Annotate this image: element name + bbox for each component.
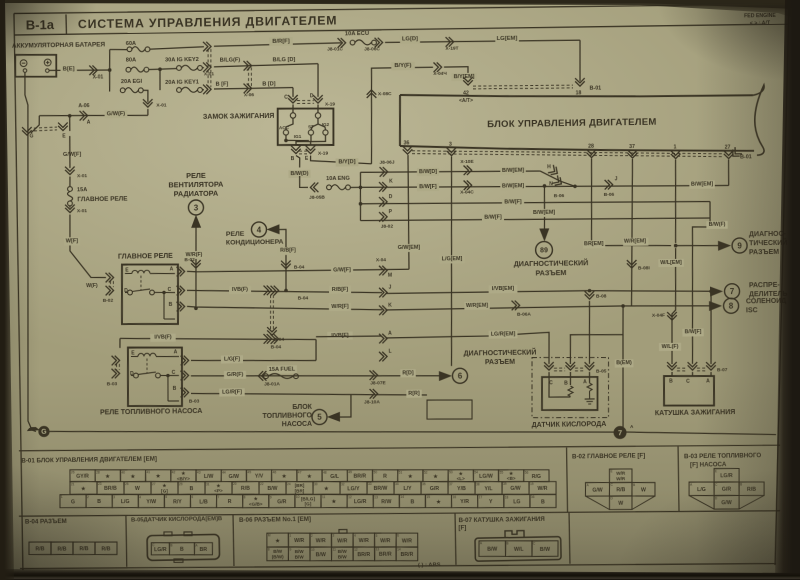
connector X-19T (446, 37, 454, 47)
connector H (548, 165, 560, 177)
svg-text:W/R: W/R (537, 486, 547, 492)
B-07 top lock tab (505, 531, 524, 538)
fuse 10A ENG (327, 185, 332, 190)
label W/R[F] fan (183, 251, 204, 259)
title bar bottom line (14, 24, 789, 36)
connector X-04 M (379, 266, 387, 276)
wire lock IG1 bar (286, 139, 309, 142)
arrow to diag89 (539, 228, 549, 241)
connector B-01 pin18 (575, 78, 585, 86)
wire sensor C in (548, 372, 550, 381)
label B/W[F] row219 (482, 214, 504, 222)
arrow to fan relay (191, 215, 201, 228)
ignition lock box (277, 108, 334, 146)
B-02 wing left (585, 496, 609, 510)
svg-text:B-01: B-01 (740, 154, 752, 160)
svg-text:Y/V: Y/V (255, 474, 264, 480)
wire battery ground (23, 72, 36, 431)
svg-text:W/R[F]: W/R[F] (331, 304, 349, 310)
label B/W[F] row204 (502, 198, 524, 206)
B-01 cell r3c1 (60, 494, 86, 508)
connector B-07 dashes1 (677, 370, 687, 372)
junction HN (573, 184, 577, 188)
lock contact IG2 (323, 130, 328, 135)
connector D J8-02 (379, 197, 387, 207)
svg-text:D: D (310, 93, 314, 99)
label L/G[EM] (439, 255, 465, 263)
svg-text:C: C (533, 541, 536, 545)
B-04 cell 2 (51, 542, 73, 555)
connector X-04 A (379, 334, 387, 344)
label W[F] (64, 237, 80, 245)
svg-text:BR: BR (200, 547, 208, 553)
connector B-06A (512, 301, 520, 311)
connector B-04 rb1 (264, 286, 272, 296)
svg-text:5: 5 (317, 413, 322, 422)
connector below ECU pin 28 (587, 149, 597, 157)
svg-text:B/W: B/W (540, 547, 550, 553)
wire H diag (540, 170, 575, 186)
svg-text:6: 6 (397, 534, 399, 538)
B-05 connector outline (147, 534, 220, 560)
fuse 60A (127, 47, 132, 52)
label B/W(F) corner (706, 221, 727, 229)
svg-text:E: E (610, 470, 612, 474)
svg-text:7: 7 (730, 287, 735, 296)
battery plus terminal (44, 59, 51, 66)
svg-text:[F] НАСОСА: [F] НАСОСА (690, 461, 727, 469)
svg-text:31: 31 (206, 482, 210, 486)
svg-text:L/Y: L/Y (403, 486, 412, 492)
svg-text:LG/R: LG/R (154, 547, 167, 553)
svg-text:B/W[F]: B/W[F] (504, 199, 522, 205)
connector J8-06C (375, 38, 383, 48)
svg-text:L/G: L/G (121, 499, 130, 505)
svg-text:J8-01A: J8-01A (264, 381, 280, 387)
connector X-01 gw2 (65, 205, 75, 213)
svg-text:B/W: B/W (338, 554, 348, 559)
svg-text:15A FUEL: 15A FUEL (269, 366, 296, 372)
svg-text:A: A (388, 331, 392, 337)
svg-text:X-01: X-01 (156, 102, 167, 108)
connector below ECU pin 3 (447, 148, 457, 156)
connector B-05 A (585, 362, 595, 370)
divider B-07/blank (568, 513, 571, 564)
fuel pump relay contact link (146, 358, 148, 373)
B-06 cell r1c3 (310, 533, 332, 548)
wire sensor A feed (589, 301, 591, 364)
svg-text:(B/W): (B/W) (272, 554, 285, 559)
svg-text:J8-07E: J8-07E (370, 380, 386, 386)
ECU box left edge (399, 95, 401, 146)
label B/W[EM] row1 (500, 167, 526, 175)
svg-text:47: 47 (298, 470, 302, 474)
wire B/Y[F] (371, 67, 433, 96)
svg-text:Y/B: Y/B (457, 486, 466, 492)
label B/W[EM] row2 (500, 182, 526, 190)
svg-text:14: 14 (397, 548, 401, 552)
svg-text:РЕЛЕ: РЕЛЕ (186, 171, 206, 180)
label I/VB(F) (150, 334, 176, 342)
svg-text:B: B (411, 499, 415, 505)
label B/W[EM] right (689, 181, 715, 189)
svg-text:A: A (583, 379, 587, 385)
svg-text:G/W: G/W (229, 474, 240, 480)
svg-text:G/W: G/W (592, 487, 603, 493)
svg-text:LG/R: LG/R (354, 499, 367, 505)
B-01 cell r3c10 (295, 494, 321, 508)
label B/Y[F] (391, 62, 415, 71)
svg-text:ТОПЛИВНОГО: ТОПЛИВНОГО (263, 413, 313, 421)
svg-text:44: 44 (222, 470, 226, 474)
svg-text:48: 48 (323, 470, 327, 474)
B-01 cell r1c17 (473, 469, 499, 482)
svg-text:★: ★ (332, 499, 337, 505)
svg-text:W: W (618, 501, 623, 507)
wire lock E to B/Y[D] (310, 155, 371, 165)
svg-text:X-10E: X-10E (460, 159, 474, 165)
connector B-03 left dashes (115, 364, 117, 370)
wire B[EM] to ground (620, 335, 625, 432)
wire key2 out (202, 67, 204, 69)
svg-text:G/W[F]: G/W[F] (63, 152, 82, 158)
connector X-04 J (379, 288, 387, 298)
title box divider (65, 14, 68, 34)
B-01 cell r3c15 (425, 494, 451, 508)
connector X-01 row2 (203, 62, 211, 72)
connector B-05 B (565, 362, 575, 370)
wire B/LG (214, 64, 318, 67)
svg-text:A: A (174, 350, 178, 356)
svg-text:1: 1 (61, 495, 63, 499)
label B[E] (60, 65, 77, 74)
svg-text:K: K (389, 178, 393, 184)
svg-text:G/W: G/W (510, 486, 521, 492)
B-07 cell B/W 2 (532, 540, 559, 556)
wire G/W to main relay (69, 116, 71, 131)
battery B box (15, 54, 57, 77)
svg-text:C: C (610, 483, 613, 487)
arrow to diag9 (718, 241, 731, 251)
svg-text:28: 28 (588, 144, 594, 150)
svg-text:W/R[EM]: W/R[EM] (624, 239, 646, 245)
B-01 cell r3c11 (321, 494, 347, 508)
svg-text:ГЛАВНОЕ РЕЛЕ: ГЛАВНОЕ РЕЛЕ (118, 253, 173, 261)
connector N (552, 175, 564, 187)
svg-text:LG/Y: LG/Y (347, 486, 360, 492)
connector X-01 dashes (208, 49, 209, 87)
arrow to ISC (709, 301, 722, 311)
fuel pump relay contacts (134, 373, 139, 378)
label W/R[EM] pin37 (623, 238, 649, 246)
B-02 cell D (609, 496, 632, 510)
svg-text:B[E]: B[E] (63, 67, 75, 73)
svg-text:Y/W: Y/W (146, 499, 156, 505)
svg-text:B(EM): B(EM) (616, 360, 632, 366)
svg-text:B-04: B-04 (271, 344, 282, 350)
svg-text:L: L (388, 349, 391, 355)
svg-text:R/B: R/B (616, 487, 625, 493)
svg-text:15: 15 (426, 495, 430, 499)
connector B-02 left dashes (109, 281, 111, 287)
connector X-01 EGI (143, 99, 153, 107)
wire I/VB right (316, 336, 382, 337)
svg-text:B/W[D]: B/W[D] (419, 169, 437, 175)
sensor element zigzag (587, 383, 592, 391)
svg-text:G: G (41, 429, 47, 436)
svg-text:B-03 РЕЛЕ ТОПЛИВНОГО: B-03 РЕЛЕ ТОПЛИВНОГО (684, 452, 762, 460)
B-01 cell r2c6 (205, 481, 232, 494)
label IVB(F) row (229, 286, 251, 294)
svg-text:1: 1 (674, 145, 677, 151)
circled 8 ISC (723, 298, 738, 313)
B-01 cell r3c17 (478, 494, 504, 508)
label B/W[D] row (417, 168, 439, 176)
main relay contact link (140, 276, 142, 291)
svg-text:8: 8 (244, 495, 246, 499)
svg-text:R: R (228, 499, 232, 505)
svg-text:B: B (169, 302, 173, 308)
svg-text:37: 37 (629, 144, 635, 150)
wire I/VB row (120, 336, 316, 343)
divider B-05/B-06 (232, 515, 235, 566)
wire AC relay feed (277, 229, 286, 290)
label R[D] (400, 369, 416, 377)
svg-text:G/W: G/W (721, 500, 732, 506)
svg-text:35: 35 (422, 482, 426, 486)
label LG/R[EM] (489, 330, 518, 338)
wire W/R[F] fan (195, 226, 198, 309)
connector B-05 C (544, 362, 554, 370)
svg-text:I/VB[F]: I/VB[F] (331, 333, 349, 339)
label R/B[F] ac (277, 247, 298, 255)
wire G/R row (191, 372, 441, 379)
svg-text:9: 9 (289, 548, 291, 552)
svg-text:BR/R: BR/R (353, 474, 366, 480)
svg-text:53: 53 (449, 470, 453, 474)
connector B-03 right A (181, 356, 189, 366)
svg-text:X-06: X-06 (244, 92, 255, 98)
wire coil A drop (710, 291, 712, 364)
wire pin27 drop (727, 160, 730, 186)
tables top border (19, 439, 780, 456)
svg-text:29: 29 (179, 482, 183, 486)
svg-text:ДИАГНОСТИЧЕСКИЙ: ДИАГНОСТИЧЕСКИЙ (464, 347, 537, 357)
svg-text:J8-06J: J8-06J (379, 159, 394, 165)
wire ENG fuse out (350, 186, 360, 188)
svg-text:G/R(F): G/R(F) (227, 372, 244, 378)
svg-text:BR/B: BR/B (104, 486, 117, 492)
svg-text:B-03: B-03 (107, 381, 118, 387)
wire BW corner (709, 201, 711, 218)
B-06 cell r1c2 (288, 533, 310, 548)
wire L/G[EM] riser (448, 157, 454, 367)
svg-text:B/LG [D]: B/LG [D] (273, 57, 296, 63)
svg-text:B: B (564, 381, 568, 387)
svg-text:27: 27 (725, 145, 731, 151)
svg-text:A: A (195, 543, 198, 547)
svg-text:R/B[F]: R/B[F] (332, 287, 348, 293)
wire W/L pin1 riser (674, 159, 676, 243)
lock contact ST (308, 130, 313, 135)
wire lock D to IG2 (318, 124, 325, 130)
svg-text:B: B (173, 386, 177, 392)
connector X-19 pin B out (291, 146, 301, 154)
circled 3 fan relay (188, 200, 203, 215)
B-01 cell r2c7 (232, 481, 259, 494)
ground node 7 (613, 426, 626, 439)
svg-text:30: 30 (314, 482, 318, 486)
B-01 cell r2c12 (367, 481, 394, 494)
svg-text:B: B (170, 543, 172, 547)
connector X-06 dashes (247, 68, 250, 87)
main relay contacts (128, 290, 133, 295)
svg-text:B: B (506, 541, 508, 545)
svg-text:21: 21 (71, 482, 75, 486)
svg-text:B/Y(F): B/Y(F) (394, 63, 411, 69)
svg-text:D: D (389, 194, 393, 200)
B-02 wing right (632, 496, 655, 509)
svg-text:[F]: [F] (458, 524, 466, 531)
lock terminal D circle (315, 113, 320, 118)
svg-text:19: 19 (530, 482, 534, 486)
svg-text:W/L(F): W/L(F) (662, 344, 679, 350)
svg-text:L/B: L/B (199, 499, 208, 505)
B-07 cell W/L (505, 540, 532, 556)
B-01 cell r1c19 (524, 469, 550, 482)
svg-text:LG: LG (513, 499, 520, 505)
connector A-06 pin G (22, 127, 32, 135)
svg-text:14: 14 (400, 495, 404, 499)
svg-text:6: 6 (191, 495, 193, 499)
connector X-06 row3 (244, 83, 252, 93)
B-01 cell r1c7 (221, 469, 247, 482)
svg-text:X-04C: X-04C (460, 189, 474, 195)
AT dashed pair to pin 18 (473, 87, 573, 89)
svg-text:R[R]: R[R] (408, 391, 420, 397)
dark top edge strip (0, 0, 800, 22)
main relay coil (132, 270, 150, 273)
svg-text:25: 25 (125, 482, 129, 486)
svg-text:X-01: X-01 (77, 173, 88, 179)
label LG/R[F] (219, 388, 245, 396)
svg-text:L/W: L/W (204, 474, 214, 480)
B-01 cell r1c1 (70, 469, 95, 482)
B-01 cell r3c16 (451, 494, 477, 508)
wire B/Y[EM] (444, 67, 468, 80)
wire 60A to ECU fuse row (150, 47, 204, 49)
label W/R[F] row (329, 303, 351, 311)
svg-text:РЕЛЕ ТОПЛИВНОГО НАСОСА: РЕЛЕ ТОПЛИВНОГО НАСОСА (100, 408, 202, 417)
svg-text:< > : A/T: < > : A/T (750, 20, 771, 26)
svg-text:G/R: G/R (722, 487, 732, 493)
svg-text:РАЗЪЕМ: РАЗЪЕМ (535, 268, 566, 277)
B-06 cell r2c2 (288, 547, 310, 561)
B-01 cell r2c9 (286, 481, 313, 494)
wire W[F] down (69, 214, 106, 278)
svg-text:B: B (633, 483, 635, 487)
frame top line (14, 2, 789, 15)
label 15A FUEL (267, 365, 297, 374)
svg-text:B/W[EM]: B/W[EM] (691, 182, 713, 188)
wire J8-02 vertical (360, 172, 361, 220)
wire L/G row (191, 359, 316, 363)
connector X-01 row3 (203, 84, 211, 94)
divider B-01/B-02 (566, 448, 569, 513)
svg-text:B: B (740, 483, 742, 487)
svg-text:[G]: [G] (305, 501, 312, 506)
svg-text:W: W (641, 487, 646, 493)
svg-text:БЛОК УПРАВЛЕНИЯ ДВИГАТЕЛЕМ: БЛОК УПРАВЛЕНИЯ ДВИГАТЕЛЕМ (487, 117, 657, 131)
svg-text:7: 7 (218, 495, 220, 499)
svg-text:R/B: R/B (101, 546, 110, 552)
svg-text:J8-02: J8-02 (381, 223, 394, 229)
svg-text:ISC: ISC (746, 307, 758, 314)
fuse 15A FUEL (264, 374, 269, 379)
svg-text:B-08: B-08 (596, 293, 607, 299)
B-05 tab2 (184, 532, 192, 536)
svg-text:<P>: <P> (214, 488, 223, 493)
dashed RB alt (270, 295, 271, 330)
svg-text:Y/R: Y/R (460, 499, 469, 505)
svg-text:R[D]: R[D] (402, 370, 414, 376)
svg-text:W: W (135, 486, 140, 492)
connector X-19 top dashes (297, 102, 314, 104)
B-01 cell r3c18 (504, 494, 530, 508)
svg-text:G/R: G/R (430, 486, 440, 492)
svg-text:Y/L: Y/L (484, 486, 493, 492)
wire 80A out (149, 69, 177, 70)
wire row B/W[F] 204 (361, 199, 711, 207)
svg-text:38: 38 (476, 482, 480, 486)
B-03 wing left (689, 495, 714, 509)
svg-text:I/VB(F): I/VB(F) (154, 335, 172, 341)
svg-text:B: B (669, 378, 673, 384)
svg-text:IG1: IG1 (294, 134, 302, 139)
connector X-01 gw (65, 167, 75, 175)
svg-text:B-02 ГЛАВНОЕ РЕЛЕ [F]: B-02 ГЛАВНОЕ РЕЛЕ [F] (572, 452, 645, 460)
connector B-08A (585, 291, 595, 299)
junction G/W column (68, 114, 72, 118)
B-01 cell r1c8 (246, 469, 272, 482)
connector X-19 pin E out (306, 146, 316, 154)
B-02 cell E (609, 469, 632, 483)
wire key1 out (202, 89, 204, 91)
svg-text:20A IG KEY1: 20A IG KEY1 (165, 79, 199, 85)
svg-text:W/L: W/L (514, 547, 524, 553)
svg-text:60A: 60A (126, 41, 136, 47)
wire sensor heater loop (549, 381, 571, 398)
svg-text:36: 36 (404, 140, 410, 146)
B-02 cell C (609, 482, 632, 496)
B-06 cell r2c6 (374, 547, 396, 561)
svg-text:20A EGI: 20A EGI (121, 79, 143, 85)
B-01 cell r1c3 (120, 469, 146, 481)
svg-text:10: 10 (311, 548, 315, 552)
svg-text:G/W[F]: G/W[F] (333, 267, 351, 273)
svg-text:★: ★ (307, 474, 312, 480)
svg-text:B-07: B-07 (717, 367, 728, 373)
connector K J8-02 (379, 182, 387, 192)
svg-text:B-04 РАЗЪЕМ: B-04 РАЗЪЕМ (25, 518, 67, 526)
wire main feed vertical (109, 50, 110, 92)
B-05 cell B (169, 542, 194, 555)
svg-text:G: G (71, 499, 75, 505)
svg-text:5: 5 (165, 495, 167, 499)
svg-text:B-06 РАЗЪЕМ No.1 [EM]: B-06 РАЗЪЕМ No.1 [EM] (239, 516, 311, 524)
svg-text:★: ★ (156, 474, 161, 480)
svg-text:J8-10A: J8-10A (364, 399, 380, 405)
